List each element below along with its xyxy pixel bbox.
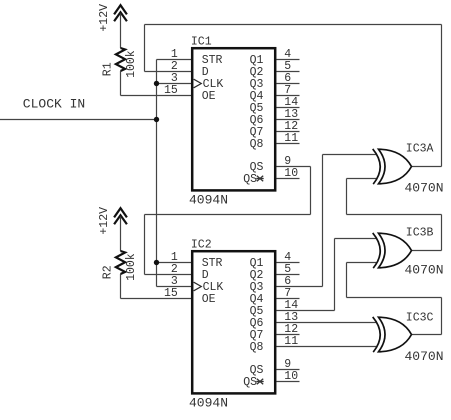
svg-text:+12V: +12V [98,4,111,32]
svg-text:11: 11 [284,132,298,145]
svg-text:OE: OE [202,293,216,306]
svg-text:CLOCK IN: CLOCK IN [23,96,85,111]
wire IC1 pin3 CLK [157,83,192,85]
wire R2 bottom [120,274,122,299]
wire IC3C output [412,334,442,336]
node junction dot IC2 STR [154,260,159,265]
power +12V arrow lower [114,208,127,224]
svg-text:IC1: IC1 [191,35,212,48]
wire IC3B input top [335,238,377,240]
svg-text:4070N: 4070N [405,180,444,195]
wire IC3A input bottom [347,178,377,180]
svg-text:4070N: 4070N [405,263,444,278]
svg-text:100k: 100k [125,50,138,78]
wire vertical x=346.5 lower [346,263,348,298]
wire IC3B output [412,250,442,252]
svg-text:10: 10 [284,370,298,383]
wire IC1 stub pin6 [277,83,300,85]
op-amp IC3A xor gate [373,149,412,184]
IC1 box 4094N [192,48,275,190]
wire feedback vertical left x=144.5 top [144,25,146,72]
wire IC1 stub pin14 [277,107,300,109]
wire IC1 stub pin4 [277,59,300,61]
op-amp IC3C xor gate [373,317,412,352]
wire feedback top horizontal y=22 [145,24,442,26]
svg-text:QS: QS [243,376,257,389]
wire IC2 pin15 OE [121,298,192,300]
wire clock vertical bus x=156 [156,60,158,287]
svg-text:+12V: +12V [98,207,111,235]
wire IC2 pin14 Q5 to IC3B [277,310,335,312]
wire IC1 stub pin5 [277,71,300,73]
wire QS cascade vertical x=310 [310,167,312,215]
svg-text:11: 11 [284,335,298,348]
wire IC1 stub pin12 [277,131,300,133]
wire IC2 stub pin5 [277,274,300,276]
wire IC2 pin11 Q8 to IC3C [277,346,377,348]
svg-text:R2: R2 [102,265,115,279]
svg-text:4070N: 4070N [405,349,444,364]
svg-text:15: 15 [164,287,178,300]
node junction dot CLOCK IN [154,117,159,122]
svg-text:10: 10 [284,167,298,180]
wire vertical x=322.5 [322,155,324,287]
wire IC1 pin9 QS [277,166,311,168]
svg-text:Q8: Q8 [250,341,264,354]
power +12V arrow upper [114,5,127,21]
wire vertical x=441.5 lower [441,298,443,335]
svg-text:R1: R1 [102,62,115,76]
resistor R1 [116,48,125,71]
wire IC1 stub pin7 [277,95,300,97]
wire feedback right vertical x=441.5 [441,25,443,167]
wire QS cascade horizontal y=215 [145,214,311,216]
wire horizontal y=297.5 [347,297,442,299]
wire IC2 pin1 STR [157,262,192,264]
wire IC2 pin6 Q3 to IC3A [277,286,323,288]
wire QS cascade vertical x=144.5 [144,215,146,275]
IC2 box 4094N [192,251,275,393]
wire IC2 stub pin12 [277,334,300,336]
svg-text:IC3A: IC3A [406,143,434,156]
svg-text:Q8: Q8 [250,138,264,151]
svg-text:IC3C: IC3C [406,312,434,325]
svg-text:IC3B: IC3B [406,227,434,240]
wire IC1 pin1 STR [157,59,192,61]
wire IC2 stub pin10 [277,381,300,383]
svg-text:4094N: 4094N [189,193,228,208]
wire horizontal y=215 right [347,214,442,216]
wire +12V stem upper [120,14,122,49]
wire IC2 stub pin4 [277,262,300,264]
wire IC1 stub pin11 [277,143,300,145]
wire IC2 pin13 Q6 to IC3C [277,322,377,324]
wire vertical x=441.5 mid [441,215,443,251]
wire vertical x=346.5 upper [346,179,348,215]
IC2 CLK wedge [194,282,202,291]
wire +12V stem lower [120,217,122,252]
wire IC1 stub pin10 [277,178,300,180]
svg-text:15: 15 [164,84,178,97]
wire IC3A input top [323,154,377,156]
wire IC2 stub pin7 [277,298,300,300]
wire IC2 pin3 CLK [157,286,192,288]
svg-text:QS: QS [243,173,257,186]
wire IC1 pin2 D [145,71,192,73]
wire IC3B input bottom [347,262,377,264]
wire IC1 pin15 OE [121,95,192,97]
wire CLOCK IN horizontal [0,119,157,121]
wire IC2 stub pin9 [277,369,300,371]
resistor R2 [116,251,125,274]
wire IC2 pin2 D [145,274,192,276]
svg-text:100k: 100k [125,253,138,281]
svg-text:4094N: 4094N [189,396,228,411]
IC1 CLK wedge [194,79,202,88]
wire IC1 stub pin13 [277,119,300,121]
wire vertical x=334.5 [334,239,336,311]
svg-text:OE: OE [202,90,216,103]
wire R1 bottom [120,71,122,96]
svg-text:IC2: IC2 [191,238,212,251]
wire IC3A output [412,166,442,168]
op-amp IC3B xor gate [373,233,412,268]
node junction dot IC1 CLK [154,81,159,86]
